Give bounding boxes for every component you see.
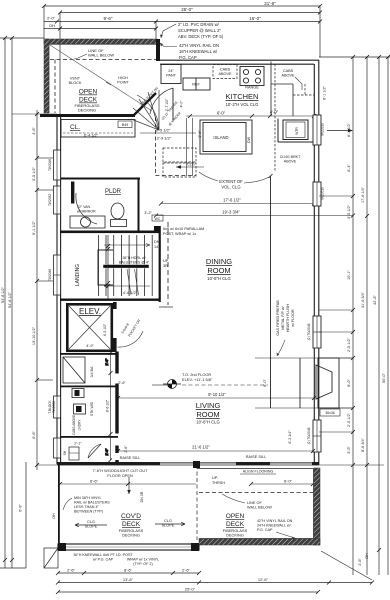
dimension column left x37 — [36, 110, 38, 470]
line below dining — [159, 306, 173, 308]
svg-text:6x6 w/ 6x10 PARALLAM: 6x6 w/ 6x10 PARALLAM — [163, 227, 204, 231]
dashed floor opening line right of stair — [167, 222, 169, 305]
elevation marker 2nd floor — [163, 380, 181, 389]
dimension line kitchen 6'-0"/4'-0" — [186, 115, 314, 117]
svg-text:8'-0": 8'-0" — [263, 379, 267, 387]
window left W3 TW2046 — [48, 255, 61, 295]
svg-text:CABS ABOVE: CABS ABOVE — [72, 415, 76, 435]
stair inner dim line — [107, 235, 109, 300]
svg-text:3R: 3R — [163, 264, 168, 268]
svg-text:16'-0": 16'-0" — [249, 16, 261, 21]
note: parallam post — [163, 227, 204, 236]
svg-text:LESS THAN 4": LESS THAN 4" — [74, 505, 100, 509]
wall: stair hall right vertical — [159, 226, 161, 302]
svg-text:2'-7 1/2": 2'-7 1/2" — [165, 98, 169, 111]
svg-text:4'-9": 4'-9" — [86, 344, 94, 348]
svg-text:WTR: WTR — [295, 127, 299, 135]
dimension column left bottom x26 — [25, 462, 27, 568]
dimension column right x353 — [352, 57, 354, 575]
leader: pvc drain note — [161, 24, 176, 38]
svg-text:21'-6": 21'-6" — [264, 1, 276, 6]
svg-text:CLG: CLG — [87, 520, 95, 524]
svg-text:RAISE SILL: RAISE SILL — [246, 454, 268, 459]
svg-text:2'-5 1/2": 2'-5 1/2" — [347, 337, 351, 352]
svg-text:ABOVE: ABOVE — [281, 74, 295, 78]
svg-text:ABOVE: ABOVE — [218, 72, 232, 76]
svg-text:2'-6": 2'-6" — [358, 558, 362, 566]
svg-text:3'-5 1/2": 3'-5 1/2" — [32, 166, 36, 181]
svg-text:12'-6": 12'-6" — [258, 577, 269, 582]
window right RW1 TW20310 — [313, 115, 353, 145]
svg-text:3'-6": 3'-6" — [198, 130, 202, 138]
svg-text:4'-0": 4'-0" — [180, 100, 184, 108]
kitchen island — [200, 120, 252, 154]
svg-text:ABOVE: ABOVE — [284, 160, 297, 164]
svg-text:METAL F/P w/: METAL F/P w/ — [281, 305, 285, 329]
svg-text:3'-2": 3'-2" — [144, 211, 152, 215]
stair direction arrows — [104, 244, 150, 288]
leader: fireplace note — [277, 340, 285, 356]
svg-text:9'-5 1/2": 9'-5 1/2" — [156, 128, 171, 133]
svg-text:B49: B49 — [122, 123, 128, 127]
svg-text:13'-10 1/2": 13'-10 1/2" — [32, 326, 36, 345]
svg-text:(2) TW2046: (2) TW2046 — [307, 323, 311, 340]
note UP THRSH — [212, 476, 225, 485]
kitchen pantry 24" PANT — [161, 65, 181, 84]
svg-text:THRSH: THRSH — [212, 481, 225, 485]
note high point left — [117, 76, 129, 85]
svg-text:WRAP w/ 1x VINYL: WRAP w/ 1x VINYL — [127, 558, 159, 562]
label R49 box — [118, 121, 132, 128]
note min 36h vinyl rail — [74, 496, 110, 514]
dimension column right x367 — [366, 57, 368, 575]
rail posts — [58, 543, 66, 551]
deck inner edge lines — [49, 44, 156, 46]
svg-text:2'-6": 2'-6" — [182, 568, 191, 573]
dashed line of wall below (lower deck) — [199, 492, 313, 494]
svg-text:BALUSTERS @ 4": BALUSTERS @ 4" — [119, 261, 150, 265]
svg-text:BLOCK: BLOCK — [69, 81, 82, 85]
svg-text:ALIGN FLOORING: ALIGN FLOORING — [243, 470, 274, 474]
svg-text:36"H HDRL w/: 36"H HDRL w/ — [122, 256, 145, 260]
bath bottom left door — [88, 444, 101, 458]
note: vent block — [69, 77, 82, 86]
svg-text:54'-8 1/2": 54'-8 1/2" — [8, 291, 12, 308]
svg-text:3/4 BA: 3/4 BA — [90, 366, 94, 377]
svg-text:ROOM: ROOM — [207, 266, 230, 275]
kitchen cabs above right — [281, 69, 295, 78]
svg-text:POINT: POINT — [117, 81, 129, 85]
leader: extent of vol clg — [199, 172, 269, 183]
room label KITCHEN — [226, 92, 259, 101]
left column ticks — [3, 36, 39, 562]
svg-text:3'-5": 3'-5" — [347, 446, 351, 454]
svg-text:TW20310: TW20310 — [321, 123, 325, 137]
stair break lines lower run — [127, 269, 139, 295]
svg-text:PANT: PANT — [166, 74, 177, 78]
svg-text:4'-6": 4'-6" — [32, 127, 36, 135]
stair handrail — [103, 265, 149, 269]
svg-text:DINING: DINING — [206, 257, 232, 266]
svg-text:42"H VINYL RAIL ON: 42"H VINYL RAIL ON — [179, 43, 219, 48]
svg-text:6'-6": 6'-6" — [90, 479, 99, 484]
svg-text:KITCHEN: KITCHEN — [226, 92, 259, 101]
note: T.O. 2nd floor elev — [182, 372, 213, 382]
svg-text:25'-0": 25'-0" — [181, 7, 193, 12]
bottom dim row3 25'-0" — [58, 591, 318, 593]
window right RW4 twin TW2046 — [307, 420, 321, 452]
svg-text:2'-6": 2'-6" — [124, 445, 128, 453]
svg-text:RANGE: RANGE — [245, 86, 259, 90]
svg-text:36"H KNEEWALL 6x6 PT LD. POST: 36"H KNEEWALL 6x6 PT LD. POST — [73, 553, 133, 557]
svg-text:TW2046: TW2046 — [48, 269, 52, 281]
svg-text:HIGH: HIGH — [118, 76, 128, 80]
dashed cab lines right wall — [275, 64, 314, 172]
svg-text:ELEV: +11'-1 5/8": ELEV: +11'-1 5/8" — [182, 377, 213, 382]
svg-text:6'-4 1/2": 6'-4 1/2" — [84, 134, 99, 138]
powder room walls — [60, 178, 140, 231]
covered deck left wall — [58, 465, 60, 545]
svg-text:6'-6": 6'-6" — [32, 431, 36, 439]
svg-text:24": 24" — [168, 69, 174, 73]
fireplace dim feeders — [255, 357, 353, 359]
svg-text:ABV. DECK (TYP. OF 5): ABV. DECK (TYP. OF 5) — [178, 34, 224, 39]
svg-text:2'-5 1/2": 2'-5 1/2" — [347, 412, 351, 427]
svg-text:19'-3 3/4": 19'-3 3/4" — [222, 210, 240, 215]
svg-text:LIVING: LIVING — [196, 401, 221, 410]
svg-text:DW: DW — [247, 136, 251, 143]
wall: right exterior (double line) — [314, 60, 319, 465]
powder door arc — [76, 193, 97, 224]
svg-text:6'-0": 6'-0" — [284, 479, 293, 484]
svg-text:2" I.D. PVC DRAIN w/: 2" I.D. PVC DRAIN w/ — [178, 22, 220, 27]
bottom dim row1 — [58, 572, 199, 574]
right column rotated dim texts — [323, 85, 387, 565]
svg-text:CABS: CABS — [283, 69, 294, 73]
svg-text:REF: REF — [192, 83, 200, 87]
leader: rail note — [160, 43, 177, 47]
svg-text:13'-6": 13'-6" — [123, 577, 134, 582]
stairwell bottom wall — [60, 299, 160, 301]
svg-text:RAISE SILL: RAISE SILL — [120, 455, 142, 460]
svg-text:w/ P.G. CAP: w/ P.G. CAP — [93, 558, 114, 562]
window sills in bottom wall — [160, 462, 312, 466]
left feeder bottom — [0, 567, 26, 569]
dim line hall east — [110, 353, 112, 460]
svg-text:2'-0": 2'-0" — [47, 16, 56, 21]
svg-text:w/ FLOOR: w/ FLOOR — [291, 309, 295, 327]
dimension column right x388 — [387, 57, 389, 575]
dimension 5'-5 1/2" below winder — [140, 132, 196, 134]
laundry sink box — [72, 389, 84, 398]
kitchen range with burners — [240, 67, 264, 86]
svg-text:16"H KNEEWALL w/: 16"H KNEEWALL w/ — [179, 49, 218, 54]
svg-text:OH: OH — [52, 513, 56, 519]
water heater closet — [278, 119, 314, 143]
svg-text:(2) TW2046: (2) TW2046 — [307, 427, 311, 444]
svg-text:COV'D: COV'D — [121, 513, 141, 520]
svg-text:42"H VINYL RAIL ON: 42"H VINYL RAIL ON — [257, 519, 293, 523]
svg-text:P.G. CAP: P.G. CAP — [179, 55, 197, 60]
winder tread labels rotated — [161, 100, 182, 126]
clng brkt note — [280, 155, 301, 164]
tick extent vol clg — [269, 174, 273, 178]
kitchen counter edge right — [271, 62, 293, 117]
svg-text:DECKING: DECKING — [122, 533, 140, 538]
svg-text:2'-6": 2'-6" — [105, 358, 109, 366]
passage dim lines left of island — [187, 118, 193, 176]
svg-text:10'-2"H VOL CLG: 10'-2"H VOL CLG — [226, 102, 259, 107]
stair landing edge box — [98, 250, 113, 285]
svg-text:DN: DN — [154, 240, 160, 244]
svg-text:DECKING: DECKING — [226, 533, 244, 538]
svg-text:DECK: DECK — [226, 521, 245, 528]
svg-text:6'-9": 6'-9" — [19, 504, 23, 512]
leader rail note — [63, 498, 72, 510]
svg-text:VOL. CLG: VOL. CLG — [221, 185, 240, 190]
washer dryer box — [74, 404, 86, 414]
WC label box — [152, 215, 163, 221]
fireplace assembly — [271, 176, 340, 408]
room label OPEN DECK upper — [79, 89, 98, 104]
note 42" van w/ mirror — [77, 205, 96, 214]
svg-text:14R: 14R — [154, 245, 161, 249]
svg-text:UP: UP — [163, 259, 169, 263]
svg-text:TW2032: TW2032 — [52, 401, 56, 413]
room label OPEN DECK lower — [226, 513, 245, 528]
svg-text:UP.: UP. — [212, 476, 218, 480]
svg-text:17'-6 1/4": 17'-6 1/4" — [361, 186, 365, 203]
note: extent of vol clg — [219, 179, 243, 190]
svg-text:6'-1 1/2": 6'-1 1/2" — [347, 122, 351, 137]
svg-text:ELEV.: ELEV. — [79, 307, 101, 316]
wall: open deck bottom hatched band — [199, 539, 320, 546]
winder stair fan — [131, 90, 159, 130]
svg-text:2'-6": 2'-6" — [67, 568, 76, 573]
svg-text:GAS FIRED PREFAB: GAS FIRED PREFAB — [276, 300, 280, 336]
svg-text:SCUPPER @ WALL 2": SCUPPER @ WALL 2" — [178, 28, 221, 33]
window left W5 — [54, 438, 61, 458]
dimension column left x5 54'-8 1/2" — [4, 38, 6, 568]
bottom dim row2 13'-6" / 12'-6" — [58, 582, 372, 584]
svg-text:EXTENT OF: EXTENT OF — [219, 179, 243, 184]
dimension column right x379 — [378, 57, 380, 575]
bottom dim ticks and texts — [56, 571, 374, 594]
window left W4 T.BLOCK TW2032 — [48, 396, 61, 418]
svg-text:10'-6"H CLG: 10'-6"H CLG — [196, 420, 219, 425]
svg-text:DECKING: DECKING — [78, 108, 96, 113]
open deck inner edge lines — [199, 468, 314, 539]
svg-text:WALL BELOW: WALL BELOW — [88, 53, 114, 58]
closet rod dashed — [63, 132, 133, 134]
wire: top dim extension verticals — [319, 6, 321, 57]
dimension line dining 17'-6 1/2" — [161, 203, 314, 205]
powder toilet — [111, 203, 127, 227]
label UP 3R — [163, 259, 169, 268]
kitchen cabs above (dashed box) — [213, 65, 237, 79]
bath 3/4 below elevator — [60, 353, 118, 387]
window right RW3 twin TW2046 — [307, 316, 321, 348]
wall: open deck left hatched band — [44, 39, 49, 113]
svg-text:9'-6": 9'-6" — [104, 16, 113, 21]
svg-text:RAIL w/ BALUSTERS: RAIL w/ BALUSTERS — [74, 501, 110, 505]
dimension line top row4 — [44, 28, 157, 30]
elevator shaft — [66, 303, 113, 352]
dashed leader from elevation marker — [182, 384, 268, 386]
window left W1 TW2046 — [48, 150, 61, 180]
svg-text:ROOM: ROOM — [196, 410, 219, 419]
svg-text:10'-6"H CLG: 10'-6"H CLG — [207, 276, 230, 281]
svg-text:3'-5 1/2": 3'-5 1/2" — [347, 204, 351, 219]
post 6x6 parallam — [154, 226, 160, 232]
wall: hall east wall lower — [116, 352, 118, 462]
svg-text:50'-0": 50'-0" — [382, 373, 386, 383]
wall: bottom exterior — [57, 462, 319, 465]
left feeder top — [0, 37, 44, 39]
svg-text:LNDRY: LNDRY — [78, 419, 82, 431]
room label DINING ROOM — [206, 257, 232, 275]
right feeder top — [319, 56, 390, 58]
svg-text:10'-1": 10'-1" — [347, 270, 351, 280]
svg-text:42" VAN: 42" VAN — [77, 205, 91, 209]
wall: diagonal pocket door wall — [134, 93, 156, 115]
note line of wall below lower — [247, 501, 272, 510]
room label LIVING ROOM — [196, 401, 221, 419]
dashed line of wall below inside deck — [50, 60, 156, 114]
label DN 14R — [154, 240, 161, 249]
wall: deck right / kitchen corner — [156, 39, 160, 61]
svg-text:HEARTH FLUSH: HEARTH FLUSH — [286, 304, 290, 333]
svg-text:2'-6": 2'-6" — [105, 448, 109, 456]
kitchen refrigerator REF — [183, 78, 210, 90]
svg-text:6'-3 1/4": 6'-3 1/4" — [288, 430, 292, 444]
dimension line living 9'-10 1/2" — [118, 397, 314, 399]
clg slope arrow kitchen — [176, 166, 204, 168]
leader: line of wall below — [74, 54, 87, 59]
svg-text:8'-0": 8'-0" — [347, 379, 351, 387]
svg-text:54'-8 1/2": 54'-8 1/2" — [1, 286, 5, 303]
svg-text:CLNG BRKT: CLNG BRKT — [280, 155, 301, 159]
svg-text:2'-9 1/2": 2'-9 1/2" — [157, 136, 172, 141]
elevator X — [69, 306, 110, 349]
svg-text:OH: OH — [365, 553, 369, 559]
stair treads — [99, 235, 153, 296]
note RAISE SILL left — [112, 453, 148, 460]
label box below bay — [320, 409, 340, 416]
svg-text:OPEN: OPEN — [226, 513, 245, 520]
dimension line top row3 9'-6" / 16'-0" — [44, 21, 321, 23]
svg-text:(TYP. OF 2): (TYP. OF 2) — [133, 562, 152, 566]
closet CL under deck — [61, 120, 135, 138]
room label COV'D DECK — [121, 513, 141, 528]
svg-text:17'-6 1/2": 17'-6 1/2" — [223, 198, 241, 203]
note: pvc drain scupper — [178, 22, 224, 39]
post at wall open deck — [193, 461, 200, 468]
svg-text:24"H KNEEWALL w/: 24"H KNEEWALL w/ — [257, 524, 292, 528]
svg-text:VENT: VENT — [70, 77, 81, 81]
svg-text:4'-5 1/2": 4'-5 1/2" — [103, 323, 107, 336]
laundry walls — [60, 436, 118, 438]
svg-text:36x36: 36x36 — [325, 411, 334, 415]
left feeder short lines — [12, 114, 57, 465]
svg-text:42'-6": 42'-6" — [373, 295, 377, 305]
svg-text:WALL BELOW: WALL BELOW — [247, 506, 272, 510]
left column rotated dim texts — [1, 127, 56, 519]
svg-text:MIN 36"H VINYL: MIN 36"H VINYL — [74, 496, 102, 500]
svg-text:TW2046: TW2046 — [48, 159, 52, 171]
wall: upper-left exterior below deck — [40, 114, 135, 117]
svg-text:STK W/D: STK W/D — [90, 401, 94, 416]
svg-text:6'-1 1/2": 6'-1 1/2" — [32, 220, 36, 235]
svg-text:DECK: DECK — [122, 521, 141, 528]
dashed extent vol clg left branch — [155, 117, 196, 176]
window right RW2 TW20510 — [313, 182, 325, 206]
svg-text:PLDR: PLDR — [105, 189, 122, 195]
svg-text:8'-6 1/2": 8'-6 1/2" — [106, 399, 110, 412]
window left W2 TW2032 — [48, 186, 61, 214]
kitchen entry door leaf and arc — [172, 88, 174, 120]
svg-text:OH: OH — [49, 23, 55, 28]
wall: kitchen top exterior (double line) — [156, 60, 319, 64]
svg-text:6'-0": 6'-0" — [217, 111, 226, 116]
open deck lower: dashed separation — [196, 465, 198, 540]
right feeder short lines — [319, 196, 384, 465]
svg-text:9'-10 1/2": 9'-10 1/2" — [208, 392, 226, 397]
dimension line living bottom 21'-6 1/2" — [118, 450, 313, 452]
covered deck bottom rail — [58, 544, 199, 550]
wall: open deck right hatched band — [314, 468, 321, 545]
svg-text:LINE OF: LINE OF — [247, 501, 262, 505]
svg-text:TW20510: TW20510 — [321, 187, 325, 201]
svg-text:4'-0": 4'-0" — [270, 110, 279, 115]
svg-text:SH: SH — [63, 450, 67, 455]
svg-text:CL.: CL. — [70, 124, 80, 131]
shower box — [63, 357, 85, 383]
svg-text:LANDING: LANDING — [75, 264, 81, 286]
open deck lower surface edge — [197, 468, 313, 470]
deck slope diagonal — [50, 45, 152, 111]
svg-text:ISLAND: ISLAND — [213, 135, 228, 140]
svg-text:6'-1 1/2": 6'-1 1/2" — [323, 85, 327, 100]
note: gas fired prefab metal fp (rotated) — [276, 300, 295, 336]
arrow marks on diagonal — [106, 82, 111, 85]
svg-text:P.G. CAP: P.G. CAP — [257, 528, 273, 532]
svg-text:31'-6 3/4": 31'-6 3/4" — [361, 291, 365, 308]
wall: open deck top hatched band — [44, 39, 157, 44]
powder vanity — [70, 216, 105, 228]
svg-text:8'-6 3/4": 8'-6 3/4" — [361, 437, 365, 452]
stairwell top wall — [60, 231, 160, 234]
wall: left exterior (double line) — [57, 115, 61, 464]
svg-text:4'-6 1/2": 4'-6 1/2" — [123, 291, 138, 295]
dimension ticks top rows — [42, 4, 322, 31]
svg-text:WC: WC — [155, 217, 161, 221]
svg-text:6'-4": 6'-4" — [347, 164, 351, 172]
pantry shelves dashed boxes — [163, 148, 196, 177]
svg-text:BETWEEN (TYP): BETWEEN (TYP) — [74, 510, 103, 514]
deck corner diagonal box — [44, 548, 58, 568]
svg-text:21'-6 1/2": 21'-6 1/2" — [192, 445, 210, 450]
dimension line top row1 — [44, 5, 320, 7]
note kneewall post bottom — [73, 553, 159, 566]
svg-text:OPEN: OPEN — [79, 89, 98, 96]
diagonal feeder bottom right — [321, 551, 372, 580]
note 42h vinyl rail lower — [257, 519, 293, 532]
svg-text:2'-1": 2'-1" — [74, 442, 82, 446]
dimension line top row2 25'-0" — [60, 12, 320, 14]
right column ticks — [351, 55, 390, 552]
svg-text:CABS: CABS — [220, 68, 231, 72]
